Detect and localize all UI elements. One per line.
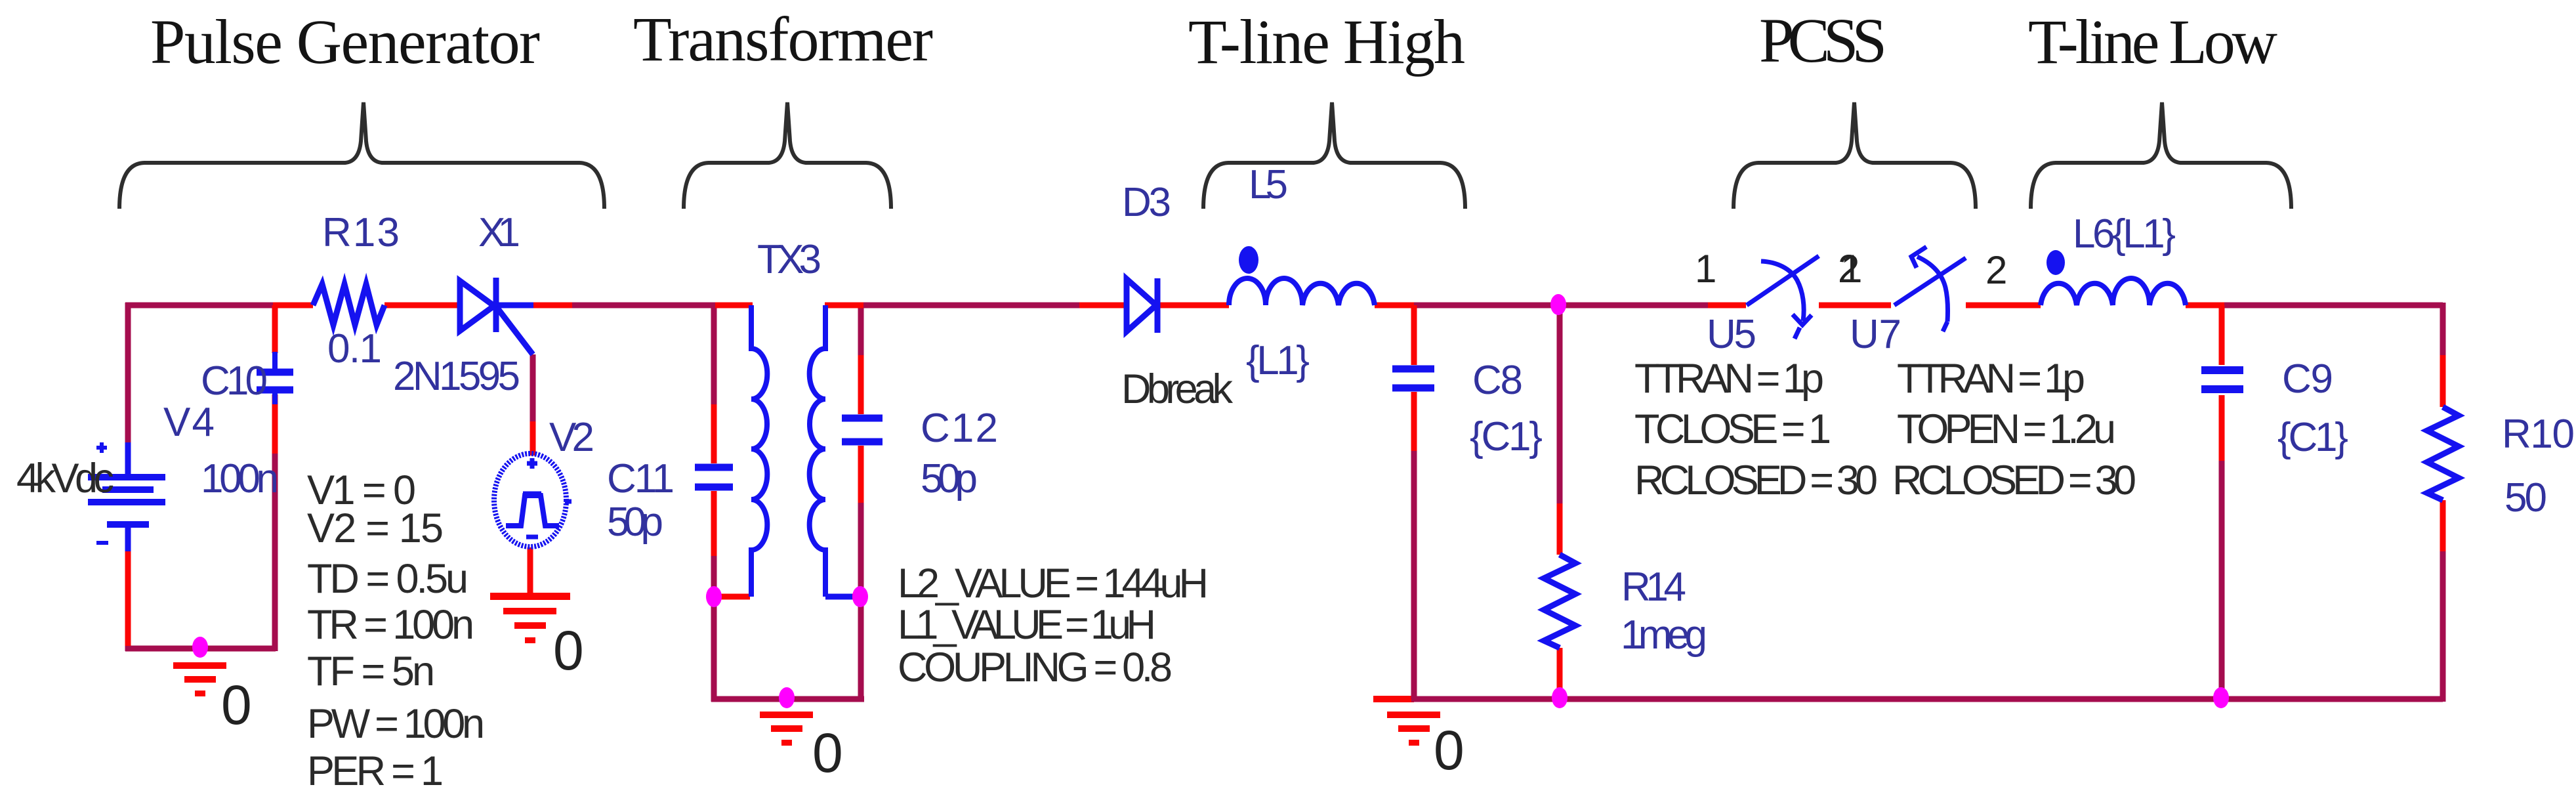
svg-text:TTRAN = 1p: TTRAN = 1p xyxy=(1634,356,1824,402)
svg-text:{L1}: {L1} xyxy=(1246,338,1310,383)
svg-text:R14: R14 xyxy=(1621,564,1686,610)
svg-text:0.1: 0.1 xyxy=(327,326,382,372)
svg-text:0: 0 xyxy=(1434,719,1465,781)
svg-text:0: 0 xyxy=(221,674,252,736)
svg-text:PCSS: PCSS xyxy=(1759,5,1887,75)
svg-text:1meg: 1meg xyxy=(1621,612,1707,658)
svg-text:R13: R13 xyxy=(322,210,400,255)
svg-text:TX3: TX3 xyxy=(757,237,821,282)
svg-text:C11: C11 xyxy=(607,456,675,501)
svg-text:0: 0 xyxy=(812,722,843,784)
svg-text:C10: C10 xyxy=(201,358,268,404)
svg-text:TR = 100n: TR = 100n xyxy=(307,602,474,648)
svg-text:2N1595: 2N1595 xyxy=(393,354,520,399)
svg-text:L2_VALUE = 144uH: L2_VALUE = 144uH xyxy=(898,561,1209,606)
svg-text:TD = 0.5u: TD = 0.5u xyxy=(307,556,468,602)
svg-text:TF = 5n: TF = 5n xyxy=(307,649,435,694)
svg-text:V4: V4 xyxy=(163,400,215,445)
svg-text:TCLOSE = 1: TCLOSE = 1 xyxy=(1634,406,1831,452)
svg-text:R10: R10 xyxy=(2502,412,2575,457)
svg-text:RCLOSED = 30: RCLOSED = 30 xyxy=(1892,457,2136,503)
svg-text:Transformer: Transformer xyxy=(633,4,933,74)
svg-text:PW = 100n: PW = 100n xyxy=(307,701,485,747)
svg-text:50: 50 xyxy=(2504,475,2547,521)
svg-text:C8: C8 xyxy=(1472,358,1523,403)
svg-text:V2 = 15: V2 = 15 xyxy=(307,505,444,551)
svg-text:C12: C12 xyxy=(921,406,998,451)
svg-text:{C1}: {C1} xyxy=(2277,415,2348,460)
svg-text:T-line High: T-line High xyxy=(1188,7,1465,77)
svg-text:L1_VALUE = 1uH: L1_VALUE = 1uH xyxy=(898,602,1156,648)
svg-text:2: 2 xyxy=(1985,248,2007,292)
svg-text:1: 1 xyxy=(1695,247,1716,291)
svg-text:T-line Low: T-line Low xyxy=(2028,7,2277,77)
svg-text:V2: V2 xyxy=(549,415,594,460)
svg-text:0: 0 xyxy=(553,620,584,681)
svg-text:X1: X1 xyxy=(478,210,520,255)
svg-text:D3: D3 xyxy=(1122,180,1171,225)
svg-text:1: 1 xyxy=(1840,247,1862,291)
svg-text:TOPEN = 1.2u: TOPEN = 1.2u xyxy=(1897,406,2116,452)
svg-text:U7: U7 xyxy=(1850,312,1901,357)
svg-text:L5: L5 xyxy=(1249,162,1288,207)
svg-text:COUPLING = 0.8: COUPLING = 0.8 xyxy=(898,645,1173,691)
svg-text:100n: 100n xyxy=(201,456,279,501)
svg-text:50p: 50p xyxy=(921,456,978,501)
svg-text:TTRAN = 1p: TTRAN = 1p xyxy=(1897,356,2085,402)
svg-text:50p: 50p xyxy=(607,500,663,545)
svg-text:PER = 1: PER = 1 xyxy=(307,748,444,794)
svg-text:4kVdc: 4kVdc xyxy=(16,456,114,501)
svg-text:Pulse Generator: Pulse Generator xyxy=(150,7,540,77)
svg-text:U5: U5 xyxy=(1707,312,1756,357)
svg-text:RCLOSED = 30: RCLOSED = 30 xyxy=(1634,457,1878,503)
svg-text:Dbreak: Dbreak xyxy=(1121,366,1234,412)
svg-text:{C1}: {C1} xyxy=(1470,414,1543,459)
svg-text:C9: C9 xyxy=(2282,356,2333,402)
svg-text:L6{L1}: L6{L1} xyxy=(2073,211,2176,257)
